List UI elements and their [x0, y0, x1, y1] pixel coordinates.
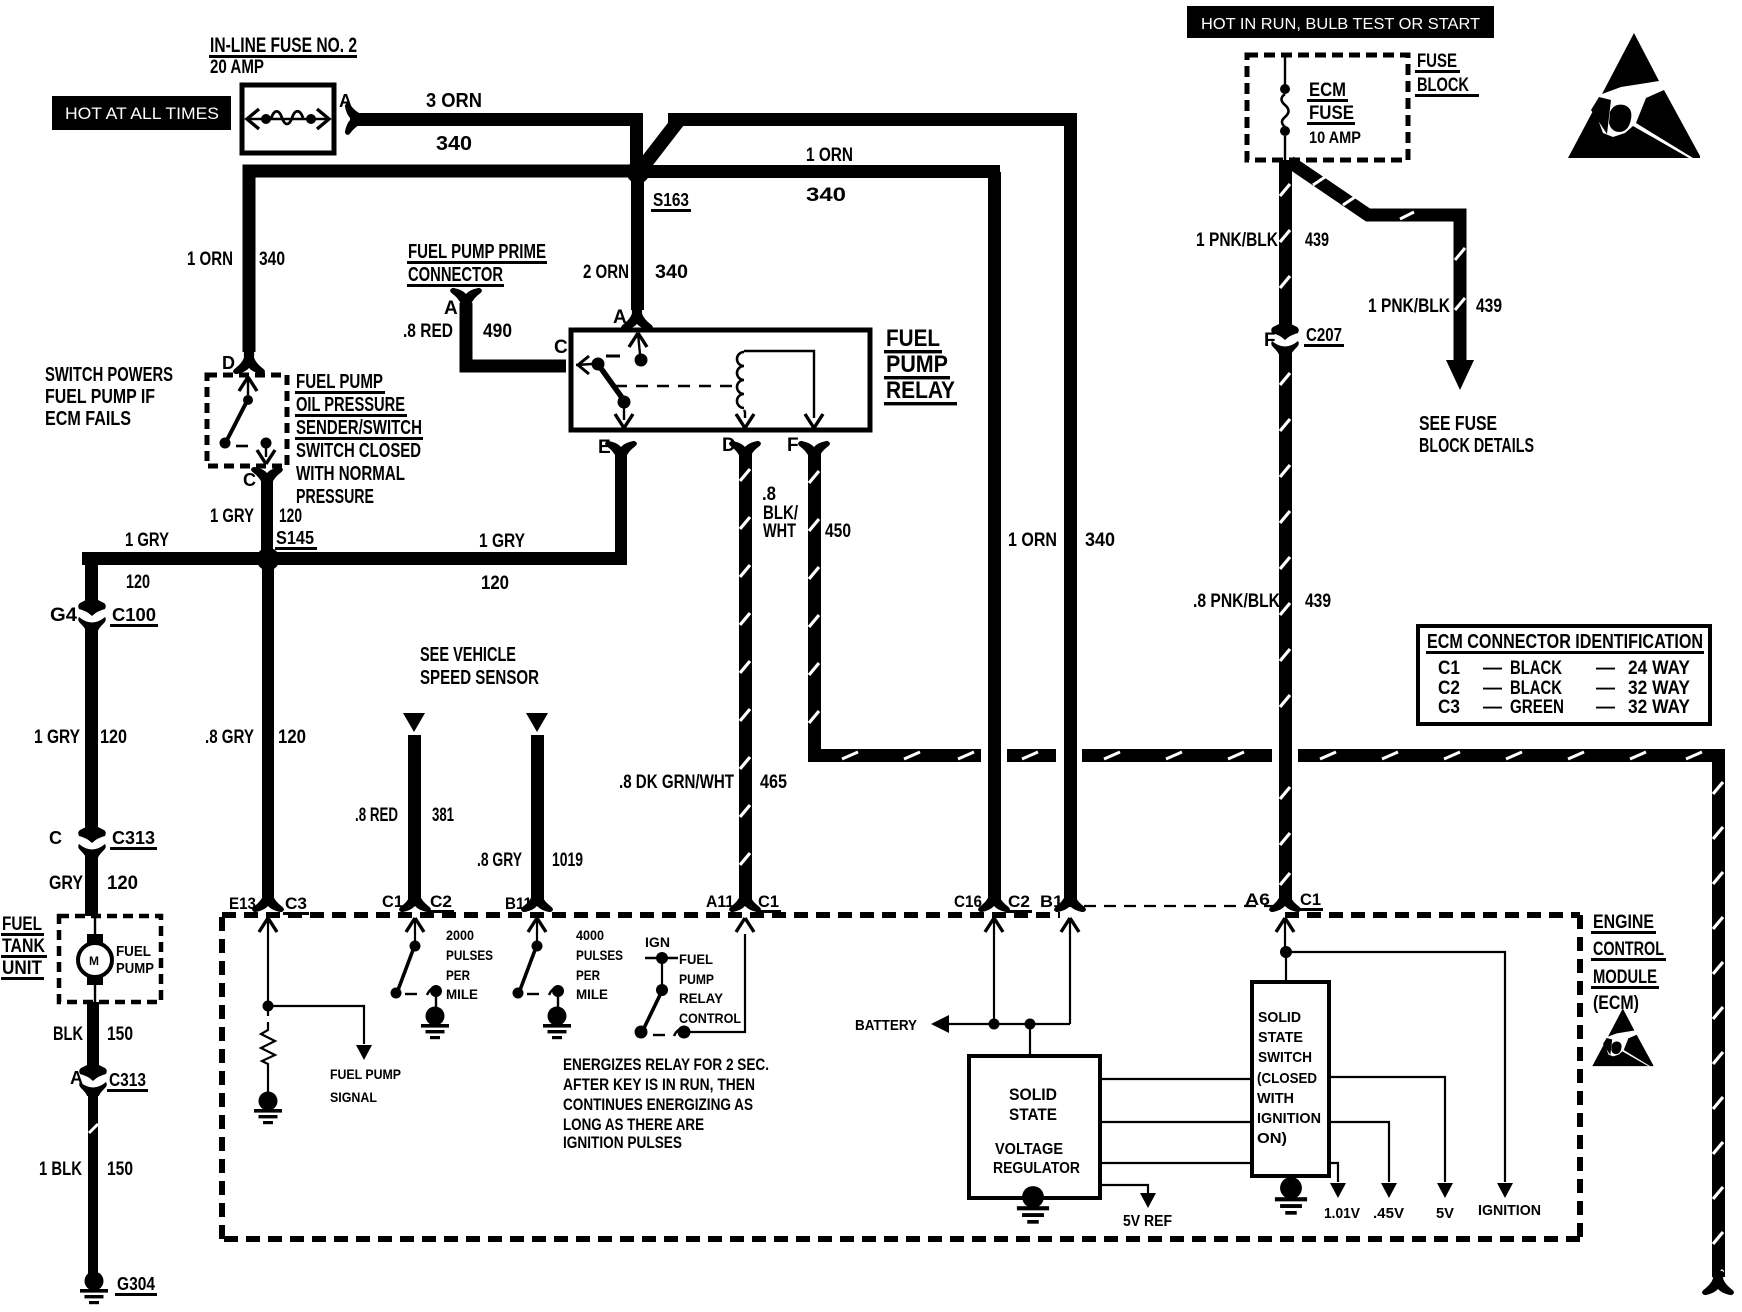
hatch ticks on right edge wire — [1713, 782, 1723, 1282]
svg-text:1 GRY: 1 GRY — [34, 727, 80, 748]
wire .8 DK GRN/WHT 465 relay D to ECM A11 — [739, 452, 752, 903]
svg-text:PUMP: PUMP — [116, 960, 154, 977]
pin C of oil pressure switch — [243, 470, 256, 490]
svg-text:120: 120 — [481, 573, 509, 594]
hatch ticks on BLK/WHT vertical — [809, 471, 819, 723]
svg-text:IGNITION: IGNITION — [1257, 1110, 1321, 1127]
label 5V — [1436, 1205, 1454, 1222]
pin B1 label — [1040, 892, 1063, 911]
wire 3 ORN 340 fuse to corner — [350, 113, 643, 126]
wire 450 horizontal run to right edge — [808, 749, 1725, 762]
svg-text:LONG AS THERE ARE: LONG AS THERE ARE — [563, 1115, 704, 1134]
oil switch pivot dot — [243, 395, 253, 405]
connector C313 label upper — [110, 828, 157, 850]
relay dashed link C to A contact — [606, 355, 620, 358]
ECM B1 terminal arrow — [1061, 918, 1079, 1024]
svg-text:STATE: STATE — [1009, 1105, 1057, 1124]
value label 340 — [436, 133, 472, 155]
svg-text:D: D — [222, 353, 235, 373]
svg-text:.8 GRY: .8 GRY — [477, 850, 522, 871]
svg-text:FUEL: FUEL — [679, 951, 713, 967]
label HOT AT ALL TIMES — [52, 96, 231, 130]
svg-text:CONTROL: CONTROL — [1593, 939, 1664, 960]
label SOLID STATE SWITCH (CLOSED WITH IGNITION ON) — [1257, 1009, 1321, 1147]
relay A terminal arrow — [629, 333, 647, 354]
wire 1 GRY 120 C100 to C313 — [85, 626, 98, 828]
pin F of relay K1 — [787, 435, 799, 456]
value label 1019 — [552, 850, 583, 871]
table row C2 BLACK 32 WAY — [1438, 678, 1690, 699]
value label .8 GRY (E13 wire) — [205, 727, 254, 748]
connector fork below relay F — [799, 442, 829, 464]
node S163 junction dot — [627, 161, 650, 184]
svg-text:F: F — [787, 435, 799, 456]
pin A of relay K1 — [613, 307, 627, 328]
node IGN label — [645, 934, 670, 950]
svg-text:FUSE: FUSE — [1309, 103, 1354, 124]
hatch ticks on diagonal branch — [1313, 177, 1465, 310]
svg-text:IN-LINE FUSE NO. 2: IN-LINE FUSE NO. 2 — [210, 34, 357, 57]
svg-text:C3: C3 — [285, 894, 307, 913]
svg-text:SPEED SENSOR: SPEED SENSOR — [420, 667, 539, 689]
value label 150 — [107, 1159, 133, 1180]
svg-text:465: 465 — [760, 772, 787, 793]
svg-text:RELAY: RELAY — [679, 990, 724, 1006]
svg-text:490: 490 — [483, 321, 512, 342]
svg-text:340: 340 — [1085, 530, 1115, 551]
fuse block dashed box — [1247, 55, 1408, 160]
svg-text:SWITCH POWERS: SWITCH POWERS — [45, 364, 173, 386]
svg-text:FUSE: FUSE — [1417, 51, 1457, 72]
value label .8 DK GRN/WHT — [619, 772, 734, 793]
wire VR to switch line 3 — [1100, 1162, 1252, 1164]
svg-text:A6: A6 — [1245, 890, 1270, 909]
value label 465 — [760, 772, 787, 793]
2000 ppm switch dashed link — [405, 993, 417, 995]
svg-text:5V REF: 5V REF — [1123, 1213, 1172, 1230]
value label 1 BLK — [39, 1159, 82, 1180]
pin F label at C207 — [1264, 330, 1276, 351]
svg-text:1 ORN: 1 ORN — [1008, 530, 1057, 551]
hatch ticks on DK GRN/WHT wire — [740, 469, 750, 865]
table row C3 GREEN 32 WAY — [1438, 697, 1690, 718]
svg-text:SEE VEHICLE: SEE VEHICLE — [420, 644, 516, 666]
svg-text:C313: C313 — [112, 828, 155, 848]
connector fork at ECM B1 — [1055, 889, 1085, 911]
wire .8 GRY 1019 to ECM B11 — [531, 735, 544, 903]
value label 490 — [483, 321, 512, 342]
ECM A11 terminal arrow — [736, 918, 754, 932]
wire 1 ORN top to right corner — [668, 113, 1077, 126]
note FUEL PUMP OIL PRESSURE SENDER/SWITCH — [295, 371, 423, 508]
ECM thin dashed border segment B1 to A6 — [1064, 905, 1279, 907]
table row C1 BLACK 24 WAY — [1438, 658, 1690, 679]
svg-text:450: 450 — [825, 521, 851, 542]
connector fork at relay A — [622, 307, 652, 329]
svg-text:FUEL PUMP: FUEL PUMP — [330, 1066, 401, 1082]
svg-text:20 AMP: 20 AMP — [210, 57, 264, 78]
svg-text:FUEL PUMP: FUEL PUMP — [296, 371, 383, 393]
svg-text:381: 381 — [432, 805, 454, 826]
wire 5V branch — [1329, 1077, 1453, 1198]
connector fork at ECM B11 — [522, 889, 552, 911]
ECM E13 junction dot — [263, 1001, 274, 1012]
svg-text:32 WAY: 32 WAY — [1628, 697, 1690, 718]
4000 ppm switch arm — [513, 950, 536, 999]
wire IGN contact to A11 — [690, 934, 745, 1032]
oil switch C arrow — [257, 448, 275, 464]
wire 5V REF — [1100, 1185, 1156, 1208]
svg-text:UNIT: UNIT — [2, 958, 42, 979]
IGN switch dashed link — [653, 1034, 665, 1036]
svg-text:M: M — [89, 954, 99, 968]
svg-text:A11: A11 — [706, 892, 734, 911]
connector C207 symbol — [1271, 319, 1299, 355]
value label BLK — [53, 1024, 83, 1045]
label SOLID STATE VOLTAGE REGULATOR — [993, 1085, 1080, 1177]
svg-text:C2: C2 — [430, 892, 452, 911]
svg-text:ENERGIZES RELAY FOR 2 SEC.: ENERGIZES RELAY FOR 2 SEC. — [563, 1055, 769, 1074]
svg-text:CONTROL: CONTROL — [679, 1010, 741, 1026]
wire 2 ORN 340 down to relay A — [631, 178, 644, 310]
svg-text:1019: 1019 — [552, 850, 583, 871]
ESD warning symbol small — [1592, 1008, 1653, 1066]
hatch tick on 1 BLK wire — [89, 1124, 98, 1133]
value label 120 (left column) — [100, 727, 127, 748]
relay dashed link arm to coil — [615, 385, 737, 388]
svg-text:C16: C16 — [954, 892, 982, 911]
pin C1 label — [382, 892, 403, 911]
value label 120 (E13 wire) — [278, 727, 306, 748]
svg-text:.8 GRY: .8 GRY — [205, 727, 254, 748]
svg-text:.45V: .45V — [1373, 1205, 1404, 1222]
relay coil top wire to F — [744, 351, 814, 418]
svg-text:.8 RED: .8 RED — [355, 805, 398, 826]
svg-text:.8: .8 — [762, 484, 776, 505]
IGN feed line and dot — [645, 952, 678, 964]
svg-text:SEE FUSE: SEE FUSE — [1419, 413, 1497, 435]
svg-text:4000: 4000 — [576, 927, 604, 943]
node S163 label — [651, 190, 691, 212]
wire BLK 150 below fuel tank — [87, 1002, 99, 1066]
svg-text:340: 340 — [806, 185, 846, 206]
connector C207 label — [1304, 325, 1344, 347]
svg-text:.8 RED: .8 RED — [403, 321, 453, 342]
connector C313 symbol upper — [78, 822, 106, 858]
svg-text:—: — — [1483, 697, 1502, 718]
svg-text:ON): ON) — [1257, 1130, 1287, 1147]
pin G4 label — [50, 605, 77, 626]
hatch ticks on PNK/BLK lower — [1280, 373, 1290, 885]
wire 1 BLK 150 to G304 — [88, 1090, 98, 1275]
connector FUEL PUMP PRIME CONNECTOR label — [407, 241, 547, 287]
value label .8 GRY — [477, 850, 522, 871]
svg-text:WHT: WHT — [763, 521, 796, 542]
svg-text:—: — — [1483, 678, 1502, 699]
value label 120 (right segment) — [481, 573, 509, 594]
wire 1.01V branch — [1329, 1163, 1346, 1198]
label FUEL PUMP RELAY CONTROL — [679, 951, 741, 1026]
svg-text:FUEL: FUEL — [886, 325, 940, 352]
ground G304 label — [115, 1274, 157, 1296]
svg-text:SWITCH: SWITCH — [1258, 1049, 1312, 1066]
svg-text:TANK: TANK — [2, 936, 45, 957]
svg-text:439: 439 — [1476, 296, 1502, 317]
svg-text:C1: C1 — [1438, 658, 1460, 679]
svg-text:5V: 5V — [1436, 1205, 1454, 1222]
value label .8 BLK/WHT — [762, 484, 799, 542]
fuse F1 element — [247, 109, 329, 129]
IGN switch arm — [635, 995, 661, 1039]
value label 150 — [107, 1024, 133, 1045]
oil switch dashed link — [236, 445, 248, 448]
value label .8 RED — [403, 321, 453, 342]
wire to FUEL PUMP SIGNAL arrow — [268, 1006, 372, 1060]
svg-text:BLK: BLK — [53, 1024, 83, 1045]
svg-text:B11: B11 — [505, 894, 532, 913]
wire IGNITION branch — [1286, 952, 1513, 1198]
wire .45V branch — [1329, 1122, 1397, 1198]
node S145 junction dot — [257, 548, 280, 571]
svg-text:C100: C100 — [112, 605, 156, 625]
ESD warning symbol top right — [1568, 33, 1700, 158]
svg-text:PULSES: PULSES — [446, 947, 493, 963]
svg-text:C313: C313 — [109, 1070, 146, 1090]
svg-text:C1: C1 — [758, 892, 779, 911]
relay coil — [737, 352, 744, 408]
switch S1 FUEL PUMP OIL PRESSURE SENDER/SWITCH box — [207, 375, 287, 466]
junction dot battery line at VR feed — [1025, 1019, 1036, 1030]
note SEE VEHICLE SPEED SENSOR — [420, 644, 539, 689]
svg-text:OIL PRESSURE: OIL PRESSURE — [296, 394, 405, 416]
svg-text:2 ORN: 2 ORN — [583, 262, 629, 283]
value label 439 (right) — [1476, 296, 1502, 317]
value label 3 ORN — [426, 90, 482, 112]
svg-text:—: — — [1596, 658, 1615, 679]
svg-text:120: 120 — [126, 572, 150, 593]
fuel tank unit dashed box — [59, 916, 161, 1002]
wire 1 GRY 120 horizontal through S145 — [82, 552, 627, 565]
svg-text:.8 PNK/BLK: .8 PNK/BLK — [1193, 591, 1280, 612]
svg-text:G4: G4 — [50, 605, 77, 626]
wire 1 GRY 120 oil switch to S145 — [261, 478, 273, 558]
value label 381 — [432, 805, 454, 826]
svg-text:IGN: IGN — [645, 934, 670, 950]
wire .8 RED 490 to relay C — [466, 303, 566, 366]
svg-text:1 GRY: 1 GRY — [479, 531, 525, 552]
svg-text:120: 120 — [279, 506, 302, 527]
svg-text:—: — — [1596, 697, 1615, 718]
note SEE FUSE BLOCK DETAILS — [1419, 413, 1534, 457]
svg-text:C: C — [49, 828, 62, 848]
svg-text:C1: C1 — [382, 892, 403, 911]
value label 450 — [825, 521, 851, 542]
svg-text:RELAY: RELAY — [886, 377, 955, 404]
relay C contact dot — [576, 358, 605, 371]
arrow head on 439 branch — [1446, 360, 1474, 390]
svg-text:HOT IN RUN, BULB TEST OR START: HOT IN RUN, BULB TEST OR START — [1201, 16, 1480, 33]
oil switch arm end dot — [220, 438, 231, 449]
svg-text:C207: C207 — [1306, 325, 1342, 345]
svg-text:1 PNK/BLK: 1 PNK/BLK — [1368, 296, 1450, 317]
wire VR to switch line 2 — [1100, 1121, 1252, 1123]
svg-text:SENDER/SWITCH: SENDER/SWITCH — [296, 417, 422, 439]
svg-text:BATTERY: BATTERY — [855, 1017, 917, 1034]
relay K1 FUEL PUMP RELAY box — [571, 330, 870, 430]
connector C100 symbol — [78, 595, 106, 631]
pin A of fuse F1 — [339, 91, 352, 111]
value label 340 (top) — [806, 185, 846, 206]
svg-text:ECM CONNECTOR IDENTIFICATION: ECM CONNECTOR IDENTIFICATION — [1427, 631, 1703, 653]
note 2000 PULSES PER MILE — [446, 927, 493, 1002]
wire 1 PNK/BLK 439 diagonal branch — [1290, 162, 1460, 362]
relay coil bottom wire to D — [744, 410, 745, 418]
svg-text:1.01V: 1.01V — [1324, 1205, 1360, 1222]
ground G304 symbol — [80, 1272, 108, 1305]
ECM B11 terminal arrow — [528, 918, 546, 941]
value label 439 (lower) — [1305, 591, 1331, 612]
fuse F1 box — [242, 85, 334, 153]
svg-text:10 AMP: 10 AMP — [1309, 128, 1361, 147]
svg-text:150: 150 — [107, 1159, 133, 1180]
connector C1 label at A6 — [1298, 890, 1323, 911]
connector fork at ECM A11 — [730, 889, 760, 911]
svg-text:24 WAY: 24 WAY — [1628, 658, 1690, 679]
connector fork at ECM C1 — [400, 889, 430, 911]
component U1 SOLID STATE VOLTAGE REGULATOR box — [969, 1056, 1100, 1198]
BATTERY feed line — [948, 1023, 1070, 1025]
wire .8 RED 381 to ECM C1 — [408, 735, 421, 903]
table title ECM CONNECTOR IDENTIFICATION — [1426, 631, 1704, 654]
svg-text:340: 340 — [655, 262, 688, 283]
ground dome at E13 resistor — [254, 1092, 282, 1125]
svg-text:1 PNK/BLK: 1 PNK/BLK — [1196, 230, 1278, 251]
svg-text:PUMP: PUMP — [886, 351, 948, 378]
A6 junction dot — [1280, 946, 1292, 958]
svg-text:SOLID: SOLID — [1009, 1085, 1057, 1104]
note SWITCH POWERS FUEL PUMP IF ECM FAILS — [45, 364, 173, 430]
label IGNITION — [1478, 1202, 1541, 1219]
connector fork below relay E — [606, 442, 636, 464]
wire down from S145 corner to C100 — [85, 552, 98, 604]
connector fork at ECM A6 — [1270, 889, 1300, 911]
node S145 label — [275, 528, 317, 550]
svg-text:MILE: MILE — [576, 986, 608, 1002]
oil switch D arrow — [239, 377, 257, 395]
resistor R1 inside ECM — [261, 1010, 275, 1092]
hatch ticks on PNK/BLK upper — [1280, 184, 1290, 288]
relay K1 label FUEL PUMP RELAY — [884, 325, 957, 405]
svg-text:120: 120 — [107, 873, 138, 894]
svg-text:MILE: MILE — [446, 986, 478, 1002]
value label 439 (left) — [1305, 230, 1329, 251]
pin D of relay K1 — [722, 435, 736, 456]
connector C3 label at E13 — [283, 894, 309, 915]
svg-text:SWITCH CLOSED: SWITCH CLOSED — [296, 440, 421, 462]
svg-text:HOT AT ALL TIMES: HOT AT ALL TIMES — [65, 104, 219, 123]
value label 1 GRY (right segment) — [479, 531, 525, 552]
relay D terminal arrow — [736, 414, 754, 428]
svg-text:CONNECTOR: CONNECTOR — [408, 264, 503, 286]
wire 1 PNK/BLK 439 fuse block down to C207 — [1279, 160, 1292, 325]
svg-text:ECM: ECM — [1309, 80, 1346, 101]
connector C313 symbol lower — [79, 1060, 107, 1096]
hatch ticks on 450 horizontal run — [842, 752, 1702, 759]
4000 ppm switch contact dot — [549, 985, 564, 997]
fuse F2 ECM FUSE element — [1280, 57, 1290, 160]
wire 1 ORN 340 left branch — [249, 171, 644, 352]
svg-text:FUEL: FUEL — [116, 943, 151, 960]
wire VR to switch line 1 — [1100, 1078, 1252, 1080]
wire diagonal at S163 — [638, 120, 679, 173]
pin A of prime connector — [444, 298, 458, 319]
value label 340 (mid) — [1085, 530, 1115, 551]
svg-text:FUEL PUMP IF: FUEL PUMP IF — [45, 386, 155, 408]
value label 1 GRY (left column) — [34, 727, 80, 748]
svg-text:B1: B1 — [1040, 892, 1063, 911]
svg-text:S145: S145 — [276, 528, 314, 548]
svg-text:439: 439 — [1305, 230, 1329, 251]
ECM dashed box border — [222, 915, 1580, 1239]
note 4000 PULSES PER MILE — [576, 927, 623, 1002]
relay C terminal arrow — [578, 356, 589, 374]
connector C100 label — [110, 605, 158, 627]
value label 2 ORN — [583, 262, 629, 283]
pin B11 label — [505, 894, 532, 913]
wire S163 branch to C16 drop — [638, 165, 1000, 178]
wire 1 ORN 340 down to B1 — [1064, 120, 1077, 900]
IGN switch stem and pivot dot — [656, 963, 668, 996]
wire GRY 120 C313 to fuel tank — [85, 852, 98, 916]
pin E13 label — [229, 894, 256, 913]
svg-text:E13: E13 — [229, 894, 256, 913]
svg-text:1 BLK: 1 BLK — [39, 1159, 82, 1180]
svg-text:WITH: WITH — [1257, 1090, 1294, 1107]
value label 340 — [655, 262, 688, 283]
value label 1 PNK/BLK (right) — [1368, 296, 1450, 317]
label HOT IN RUN, BULB TEST OR START — [1187, 6, 1494, 38]
connector fork at oil switch D — [234, 351, 264, 373]
2000 ppm switch arm — [391, 950, 414, 999]
value label 120 — [107, 873, 138, 894]
value label GRY — [49, 873, 83, 894]
connector fork prime (opens up) — [451, 289, 481, 311]
svg-text:C2: C2 — [1438, 678, 1460, 699]
svg-text:BLACK: BLACK — [1510, 678, 1562, 699]
pin C16 label — [954, 892, 982, 911]
table ECM CONNECTOR IDENTIFICATION box — [1418, 626, 1710, 724]
motor label FUEL PUMP — [116, 943, 154, 977]
note ENERGIZES RELAY FOR 2 SEC ... — [563, 1055, 769, 1152]
connector fork at ECM E13 — [253, 889, 283, 911]
BATTERY arrow — [931, 1015, 949, 1033]
svg-text:120: 120 — [100, 727, 127, 748]
fuse F1 IN-LINE FUSE NO. 2 label — [209, 34, 357, 78]
relay E terminal arrow — [615, 408, 633, 428]
pin C label at C313 — [49, 828, 62, 848]
svg-text:1 ORN: 1 ORN — [187, 249, 233, 270]
relay arm pivot dot — [618, 396, 631, 409]
4000 ppm switch pivot dot — [532, 941, 543, 952]
wire .8 PNK/BLK 439 C207 to ECM A6 — [1279, 349, 1292, 900]
svg-text:(CLOSED: (CLOSED — [1257, 1070, 1317, 1087]
svg-text:C: C — [554, 337, 568, 358]
svg-text:IGNITION: IGNITION — [1478, 1202, 1541, 1219]
VSS arrow to B11 wire — [526, 713, 548, 732]
svg-text:340: 340 — [259, 249, 285, 270]
svg-text:439: 439 — [1305, 591, 1331, 612]
2000 ppm switch contact dot — [427, 985, 442, 997]
